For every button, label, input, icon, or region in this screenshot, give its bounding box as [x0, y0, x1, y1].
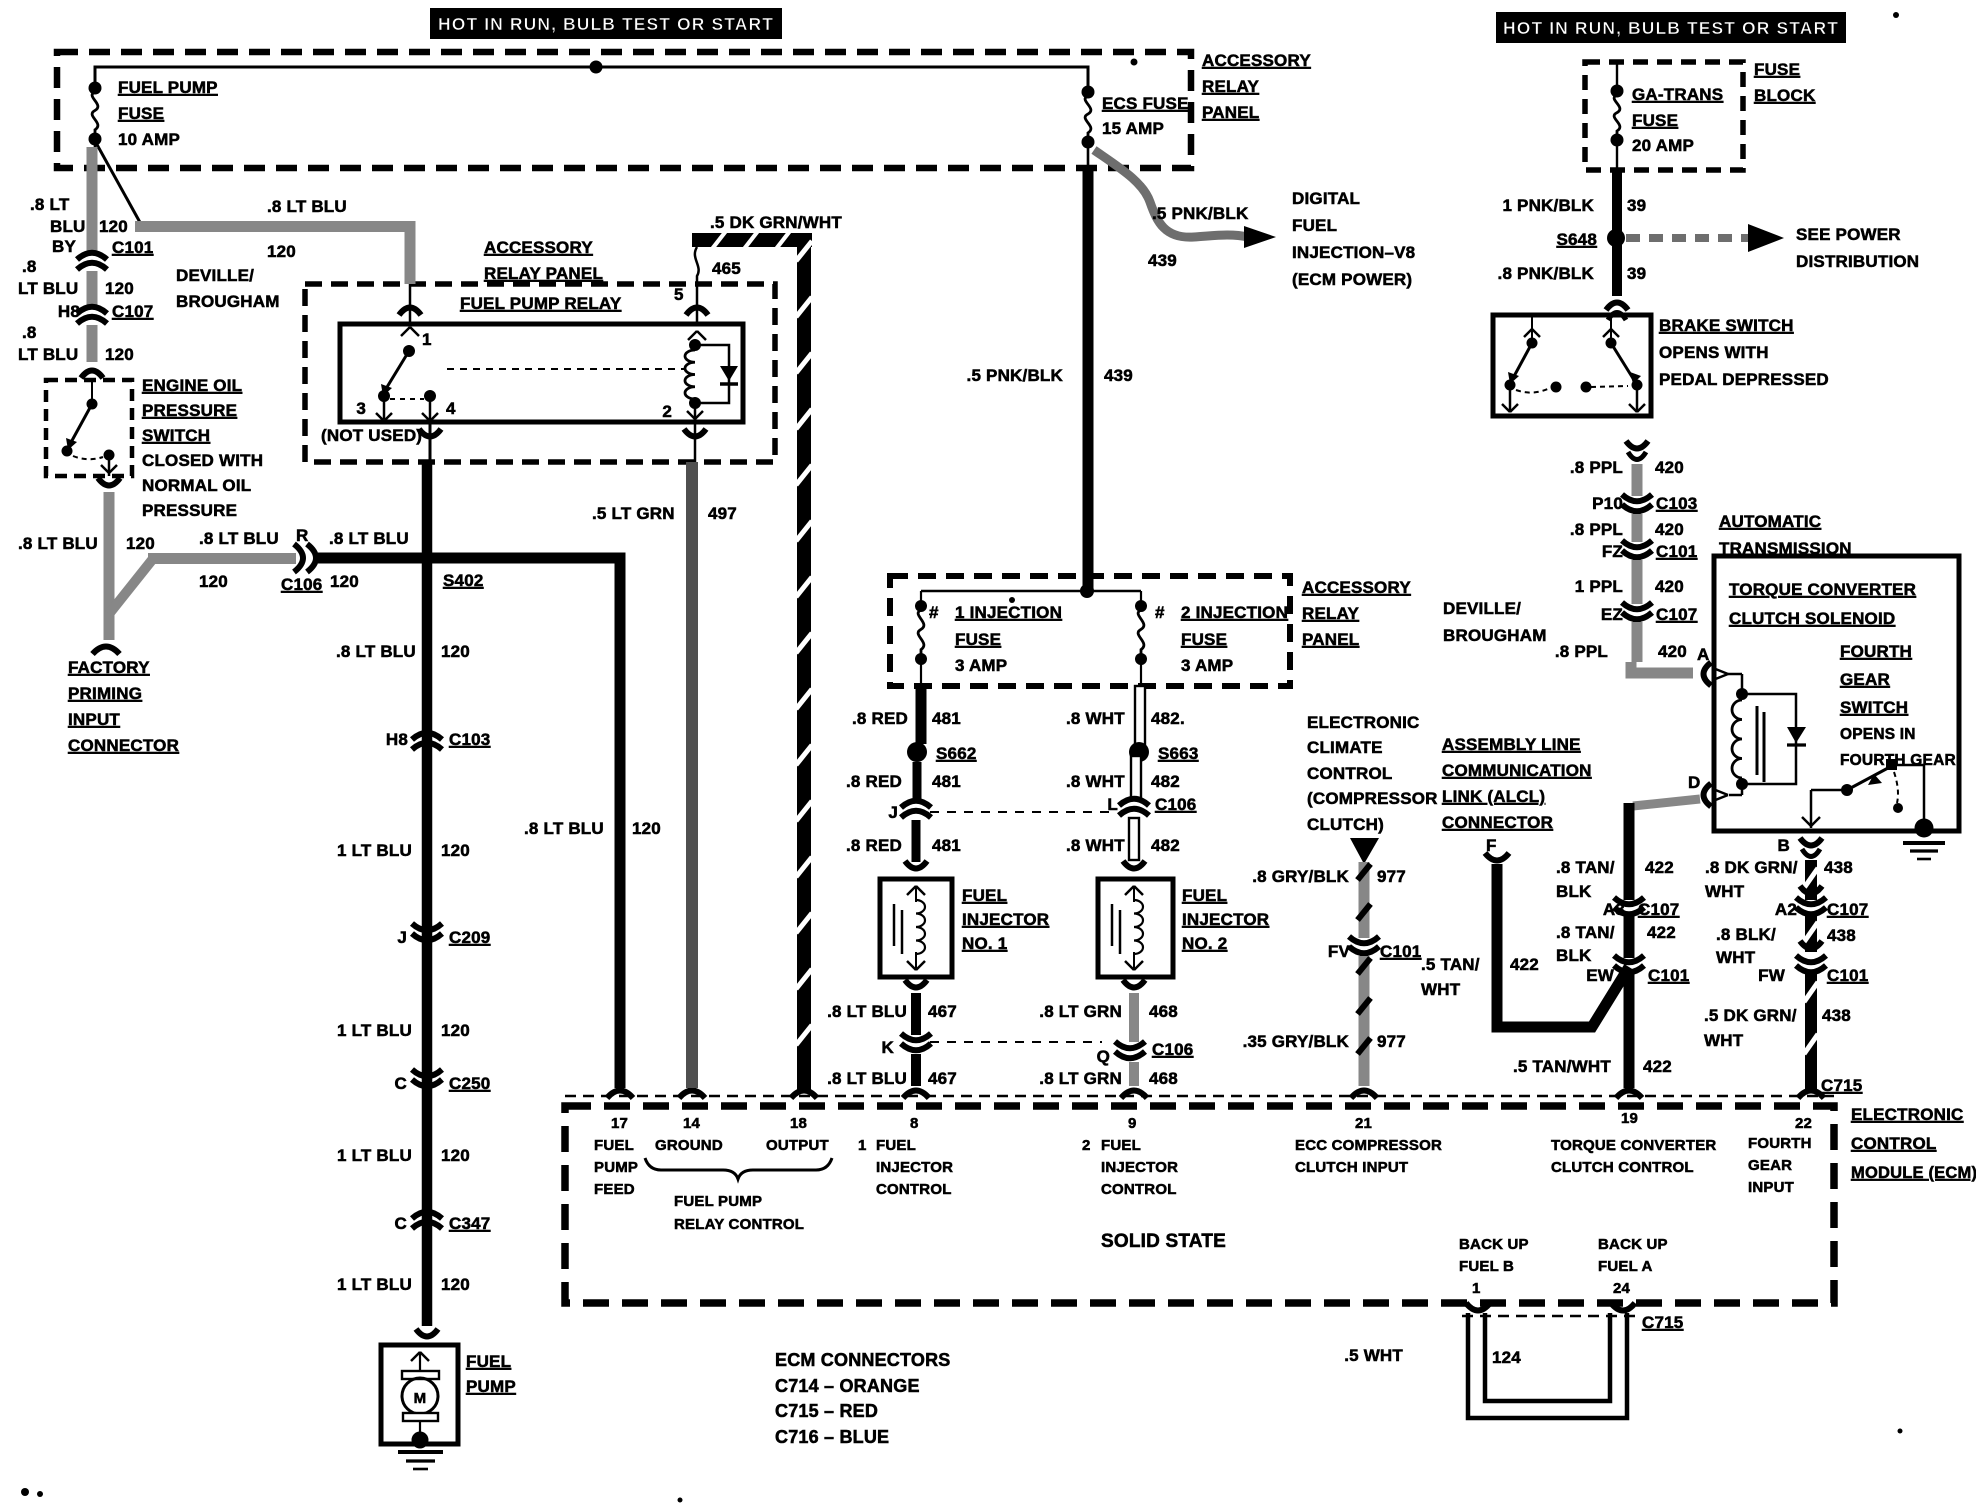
connector C107 A3 — [1614, 898, 1644, 905]
svg-text:CONNECTOR: CONNECTOR — [1442, 813, 1553, 832]
svg-text:MODULE (ECM): MODULE (ECM) — [1851, 1164, 1976, 1182]
svg-text:ECS FUSE: ECS FUSE — [1102, 94, 1189, 113]
relay coil diode branch — [695, 345, 729, 403]
svg-text:A2: A2 — [1775, 900, 1797, 919]
svg-text:INJECTOR: INJECTOR — [1182, 910, 1269, 929]
injector2 internals — [1125, 886, 1134, 895]
wire .8 PPL 420 C103-C101 — [1632, 514, 1643, 542]
svg-text:C: C — [395, 1214, 407, 1233]
ECS fuse (15 amp) — [1082, 86, 1095, 99]
injector1 internals — [907, 886, 916, 895]
svg-text:15 AMP: 15 AMP — [1102, 119, 1164, 138]
engine oil pressure switch dashed box — [46, 380, 132, 476]
svg-text:C103: C103 — [449, 730, 490, 749]
svg-text:GROUND: GROUND — [655, 1137, 723, 1154]
svg-text:.5 PNK/BLK: .5 PNK/BLK — [967, 366, 1064, 385]
relay dashed link 3-4 — [390, 398, 424, 400]
svg-text:120: 120 — [99, 217, 128, 236]
connector C107 (left) H8 — [77, 307, 107, 314]
relay pin 2 lead — [694, 403, 697, 422]
svg-text:C714 – ORANGE: C714 – ORANGE — [775, 1376, 920, 1396]
svg-text:FUEL: FUEL — [1182, 886, 1227, 905]
ground symbol fuel pump — [398, 1450, 443, 1454]
svg-text:S663: S663 — [1158, 744, 1199, 763]
svg-text:482.: 482. — [1151, 709, 1185, 728]
wire .8 RED 481 fuse1 to S662 — [916, 686, 927, 744]
bus to injection fuses — [921, 590, 1141, 593]
connector C106 Q — [1115, 1042, 1145, 1049]
svg-text:CONTROL: CONTROL — [1851, 1134, 1936, 1153]
svg-text:EW: EW — [1586, 966, 1615, 985]
svg-text:.8 LT GRN: .8 LT GRN — [1039, 1069, 1122, 1088]
svg-text:RELAY CONTROL: RELAY CONTROL — [674, 1216, 804, 1233]
relay pin 1 lead — [409, 284, 412, 324]
svg-text:1 LT BLU: 1 LT BLU — [337, 1021, 412, 1040]
accessory relay panel dashed box (injection fuses) — [890, 576, 1290, 686]
grey arrow to power distribution — [1626, 234, 1750, 242]
svg-text:RELAY: RELAY — [1302, 604, 1360, 623]
wire .8 LT BLU 120 C107-oil switch — [87, 325, 98, 362]
ground dot fourth gear switch — [1915, 819, 1934, 838]
svg-text:FUEL: FUEL — [466, 1352, 511, 1371]
svg-text:C106: C106 — [1152, 1040, 1193, 1059]
svg-text:TORQUE CONVERTER: TORQUE CONVERTER — [1551, 1137, 1716, 1154]
tcc solenoid diode branch — [1742, 694, 1796, 784]
svg-text:3: 3 — [356, 399, 366, 418]
connector C347 C — [412, 1212, 442, 1219]
svg-text:.8 WHT: .8 WHT — [1066, 836, 1125, 855]
svg-text:DIGITAL: DIGITAL — [1292, 189, 1360, 208]
connector C250 C — [412, 1070, 442, 1077]
svg-text:977: 977 — [1377, 1032, 1406, 1051]
fuel pump ground dot — [412, 1432, 429, 1449]
svg-text:CLUTCH): CLUTCH) — [1307, 815, 1384, 834]
svg-text:WHT: WHT — [1716, 948, 1756, 967]
wire .8 LT BLU 120 C101-C107 — [87, 271, 98, 307]
banner HOT IN RUN, BULB TEST OR START (right) — [1496, 12, 1846, 43]
wire .8 GRY/BLK 977 to FV — [1359, 862, 1370, 938]
svg-text:1: 1 — [1472, 1280, 1481, 1297]
wire .8 WHT 482 fuse2 to S663 (open) — [1135, 686, 1145, 748]
relay inner box — [340, 324, 743, 422]
svg-text:C106: C106 — [281, 575, 322, 594]
svg-text:420: 420 — [1655, 577, 1684, 596]
connector C106 L — [1119, 799, 1149, 806]
svg-text:FUSE: FUSE — [955, 630, 1001, 649]
svg-text:ACCESSORY: ACCESSORY — [484, 238, 593, 257]
svg-text:C: C — [395, 1074, 407, 1093]
svg-text:(ECM POWER): (ECM POWER) — [1292, 270, 1412, 289]
svg-text:A3: A3 — [1603, 900, 1625, 919]
svg-text:P10: P10 — [1592, 494, 1623, 513]
svg-text:438: 438 — [1824, 858, 1853, 877]
wire stub terminal D to A3 wire — [1633, 799, 1700, 806]
connector C103 P10 — [1622, 495, 1652, 502]
svg-text:OPENS WITH: OPENS WITH — [1659, 343, 1769, 362]
brace fuel pump relay control — [645, 1158, 832, 1179]
svg-text:FUEL: FUEL — [594, 1137, 634, 1154]
arrow into fuel pump — [416, 1329, 438, 1337]
svg-text:420: 420 — [1655, 458, 1684, 477]
svg-text:.8 LT BLU: .8 LT BLU — [199, 529, 279, 548]
svg-text:.8: .8 — [22, 323, 37, 342]
wire .8 TAN/BLK 422 A3 to EW — [1624, 914, 1635, 958]
svg-text:GA-TRANS: GA-TRANS — [1632, 85, 1723, 104]
svg-text:22: 22 — [1795, 1115, 1812, 1132]
svg-text:BACK UP: BACK UP — [1598, 1236, 1668, 1253]
connector C107 EZ — [1622, 603, 1652, 610]
svg-text:.8 TAN/: .8 TAN/ — [1556, 923, 1615, 942]
svg-text:SWITCH: SWITCH — [1840, 698, 1908, 717]
wire .5 TAN/WHT 422 from ALCL — [1497, 864, 1629, 1027]
#2 injection fuse 3 amp — [1140, 591, 1142, 601]
wire .8 LT BLU 467 injector1 to K — [911, 993, 921, 1035]
svg-text:.8: .8 — [22, 257, 37, 276]
svg-text:1 PNK/BLK: 1 PNK/BLK — [1502, 196, 1594, 215]
svg-text:FUSE: FUSE — [1754, 60, 1800, 79]
svg-text:J: J — [397, 928, 407, 947]
relay contact dot pin4 — [424, 390, 436, 402]
svg-text:ECC COMPRESSOR: ECC COMPRESSOR — [1295, 1137, 1442, 1154]
connector C107 A2 — [1800, 886, 1822, 894]
svg-text:.8 LT BLU: .8 LT BLU — [267, 197, 347, 216]
svg-text:.5 TAN/WHT: .5 TAN/WHT — [1513, 1057, 1611, 1076]
relay coil lead pin5 — [696, 284, 699, 324]
svg-text:.8 LT BLU: .8 LT BLU — [827, 1069, 907, 1088]
svg-text:21: 21 — [1355, 1115, 1372, 1132]
svg-text:.8 LT BLU: .8 LT BLU — [18, 534, 98, 553]
diode — [720, 366, 738, 381]
svg-text:C107: C107 — [1827, 900, 1868, 919]
svg-text:LT BLU: LT BLU — [18, 279, 78, 298]
svg-text:K: K — [882, 1038, 895, 1057]
svg-text:.8 LT BLU: .8 LT BLU — [329, 529, 409, 548]
svg-text:.5 DK GRN/: .5 DK GRN/ — [1704, 1006, 1797, 1025]
arrow into injector 1 — [905, 861, 927, 869]
svg-text:.8 BLK/: .8 BLK/ — [1716, 925, 1776, 944]
svg-text:14: 14 — [683, 1115, 701, 1132]
svg-text:.8 RED: .8 RED — [852, 709, 908, 728]
wire .8 TAN/BLK 422 terminal D to A3 — [1624, 803, 1635, 900]
fuel pump box — [381, 1345, 458, 1444]
wire 1 PPL 420 C101-C107 — [1632, 560, 1643, 604]
svg-text:PEDAL DEPRESSED: PEDAL DEPRESSED — [1659, 370, 1829, 389]
svg-text:C250: C250 — [449, 1074, 490, 1093]
svg-text:24: 24 — [1613, 1280, 1631, 1297]
svg-text:BLU: BLU — [50, 217, 86, 236]
svg-text:A: A — [1697, 645, 1709, 664]
arrowhead to digital fuel injection — [1244, 226, 1276, 248]
pin 1 arc — [1466, 1303, 1490, 1311]
svg-text:.8 RED: .8 RED — [846, 772, 902, 791]
svg-text:CONNECTOR: CONNECTOR — [68, 736, 179, 755]
junction dot on bus — [590, 61, 603, 74]
svg-text:BRAKE SWITCH: BRAKE SWITCH — [1659, 316, 1794, 335]
svg-text:2: 2 — [662, 402, 672, 421]
svg-text:18: 18 — [790, 1115, 807, 1132]
wire .35 GRY/BLK 977 FV to ECM pin21 — [1359, 956, 1370, 1086]
svg-text:120: 120 — [441, 1275, 470, 1294]
banner HOT IN RUN, BULB TEST OR START (left) — [430, 8, 782, 39]
svg-text:CLOSED WITH: CLOSED WITH — [142, 451, 263, 470]
wire .8 LT BLU 120 fuse down-left — [87, 147, 98, 253]
svg-text:.8 LT BLU: .8 LT BLU — [336, 642, 416, 661]
svg-text:439: 439 — [1104, 366, 1133, 385]
junction dot pnk/blk feed — [1080, 584, 1094, 598]
svg-text:.8 RED: .8 RED — [846, 836, 902, 855]
svg-text:BROUGHAM: BROUGHAM — [1443, 626, 1547, 645]
svg-text:J: J — [888, 803, 898, 822]
relay contact dot pin3 — [378, 390, 390, 402]
svg-text:120: 120 — [105, 279, 134, 298]
svg-text:3 AMP: 3 AMP — [955, 656, 1007, 675]
svg-text:C107: C107 — [1656, 605, 1697, 624]
svg-text:INJECTION–V8: INJECTION–V8 — [1292, 243, 1415, 262]
svg-text:20 AMP: 20 AMP — [1632, 136, 1694, 155]
wire .8 BLK/WHT 438 — [1805, 914, 1817, 952]
accessory relay panel dashed box (top) — [57, 52, 1191, 168]
wire .5 DK GRN/WHT 438 to ECM pin 22 — [1805, 974, 1817, 1090]
terminal D — [1741, 784, 1744, 795]
svg-text:120: 120 — [441, 841, 470, 860]
svg-text:DISTRIBUTION: DISTRIBUTION — [1796, 252, 1919, 271]
svg-text:S648: S648 — [1556, 230, 1597, 249]
automatic transmission box — [1714, 556, 1959, 831]
arrow out of injector 1 — [905, 980, 927, 988]
terminal cap at oil pressure switch — [81, 371, 103, 379]
connector C209 J — [412, 924, 442, 931]
svg-text:Q: Q — [1097, 1047, 1110, 1066]
svg-text:CLUTCH SOLENOID: CLUTCH SOLENOID — [1729, 609, 1895, 628]
terminal cap below oil switch — [98, 478, 120, 486]
svg-text:FUEL B: FUEL B — [1459, 1258, 1514, 1275]
svg-text:17: 17 — [611, 1115, 628, 1132]
svg-text:120: 120 — [441, 1146, 470, 1165]
svg-text:S402: S402 — [443, 571, 484, 590]
wire stub to relay pin 5 — [695, 247, 699, 284]
svg-text:2: 2 — [1082, 1137, 1091, 1154]
relay pin4 lead — [429, 400, 432, 422]
svg-text:SWITCH: SWITCH — [142, 426, 210, 445]
splice S663 — [1129, 742, 1149, 762]
wire .5 PNK/BLK 439 branch to DFI (grey squiggle) — [1094, 150, 1248, 237]
wire .8 RED 481 J to injector1 — [912, 820, 921, 862]
svg-text:R: R — [296, 526, 308, 545]
fuel pump relay dashed box — [305, 284, 775, 462]
wire .5 DK GRN/WHT 465/output striped vertical — [692, 233, 812, 247]
svg-text:NORMAL OIL: NORMAL OIL — [142, 476, 251, 495]
svg-text:120: 120 — [441, 1021, 470, 1040]
svg-text:PUMP: PUMP — [466, 1377, 516, 1396]
svg-text:481: 481 — [932, 772, 961, 791]
wire .8 LT BLU 120 horizontal to C106 — [148, 553, 296, 564]
svg-text:DEVILLE/: DEVILLE/ — [1443, 599, 1521, 618]
svg-text:467: 467 — [928, 1002, 957, 1021]
svg-text:465: 465 — [712, 259, 741, 278]
svg-text:.8 LT BLU: .8 LT BLU — [524, 819, 604, 838]
svg-text:1 LT BLU: 1 LT BLU — [337, 1146, 412, 1165]
svg-text:RELAY: RELAY — [1202, 77, 1260, 96]
svg-text:120: 120 — [199, 572, 228, 591]
svg-text:ELECTRONIC: ELECTRONIC — [1851, 1105, 1964, 1124]
svg-text:#: # — [1155, 603, 1165, 622]
svg-text:481: 481 — [932, 836, 961, 855]
svg-text:BLOCK: BLOCK — [1754, 86, 1816, 105]
svg-text:CONTROL: CONTROL — [1101, 1181, 1177, 1198]
svg-text:L: L — [1107, 795, 1118, 814]
svg-text:(COMPRESSOR: (COMPRESSOR — [1307, 789, 1438, 808]
svg-text:AUTOMATIC: AUTOMATIC — [1719, 512, 1821, 531]
relay pin3 stub (not used) — [383, 400, 386, 419]
svg-text:D: D — [1688, 773, 1700, 792]
svg-text:.8 PPL: .8 PPL — [1555, 642, 1608, 661]
svg-text:.5 PNK/BLK: .5 PNK/BLK — [1152, 204, 1249, 223]
svg-text:120: 120 — [441, 642, 470, 661]
ECM pin entry arcs — [607, 1091, 633, 1099]
svg-text:3 AMP: 3 AMP — [1181, 656, 1233, 675]
svg-text:482: 482 — [1151, 772, 1180, 791]
wire .8 LT BLU 120 to factory priming connector — [104, 492, 115, 640]
svg-text:PRESSURE: PRESSURE — [142, 401, 237, 420]
svg-text:.5 LT GRN: .5 LT GRN — [592, 504, 675, 523]
arrow into injector 2 — [1123, 861, 1145, 869]
svg-text:RELAY PANEL: RELAY PANEL — [484, 264, 603, 283]
wire .8 LT GRN 468 Q to ECM pin9 (grey) — [1129, 1062, 1139, 1086]
svg-text:2 INJECTION: 2 INJECTION — [1181, 603, 1288, 622]
svg-text:438: 438 — [1827, 926, 1856, 945]
svg-text:.5 TAN/: .5 TAN/ — [1421, 955, 1480, 974]
wire relay pin4/S402 vertical run to fuel pump — [422, 462, 433, 1326]
svg-text:FUEL: FUEL — [1292, 216, 1337, 235]
svg-text:M: M — [414, 1390, 427, 1407]
svg-text:10 AMP: 10 AMP — [118, 130, 180, 149]
svg-text:C101: C101 — [1827, 966, 1868, 985]
svg-text:ENGINE OIL: ENGINE OIL — [142, 376, 242, 395]
svg-text:1 LT BLU: 1 LT BLU — [337, 841, 412, 860]
svg-text:.5 DK GRN/WHT: .5 DK GRN/WHT — [710, 213, 842, 232]
wire .8 WHT 482 L to injector2 (open) — [1129, 818, 1139, 860]
connector C106 J — [901, 801, 931, 808]
svg-text:BACK UP: BACK UP — [1459, 1236, 1529, 1253]
svg-text:PRESSURE: PRESSURE — [142, 501, 237, 520]
wire .5 TAN/WHT 422 EW to ECM pin 19 — [1624, 972, 1635, 1088]
svg-text:.8 PPL: .8 PPL — [1570, 458, 1623, 477]
svg-text:.8 PNK/BLK: .8 PNK/BLK — [1498, 264, 1595, 283]
svg-text:BY: BY — [52, 237, 76, 256]
svg-text:FACTORY: FACTORY — [68, 658, 150, 677]
svg-text:SOLID STATE: SOLID STATE — [1101, 1231, 1226, 1252]
svg-text:CLIMATE: CLIMATE — [1307, 738, 1383, 757]
svg-text:GEAR: GEAR — [1840, 670, 1890, 689]
svg-text:482: 482 — [1151, 836, 1180, 855]
brake switch internals left — [1531, 315, 1533, 340]
svg-text:.8 DK GRN/: .8 DK GRN/ — [1705, 858, 1798, 877]
svg-text:ACCESSORY: ACCESSORY — [1202, 51, 1311, 70]
backup fuel jumper .5 WHT 124 (open wire loop) — [1468, 1313, 1627, 1418]
ground symbol transmission — [1903, 841, 1945, 845]
svg-text:NO. 2: NO. 2 — [1182, 934, 1227, 953]
svg-text:H8: H8 — [58, 302, 80, 321]
svg-text:BLK: BLK — [1556, 946, 1592, 965]
wire .8 LT BLU 467 K to ECM pin8 — [911, 1054, 921, 1086]
svg-text:ECM CONNECTORS: ECM CONNECTORS — [775, 1350, 950, 1370]
terminal B exit — [1810, 790, 1813, 828]
svg-text:120: 120 — [632, 819, 661, 838]
svg-text:.8 WHT: .8 WHT — [1066, 772, 1125, 791]
connector C103 H8 — [412, 733, 442, 740]
svg-text:C101: C101 — [1380, 942, 1421, 961]
wire .8 PPL 420 C107 to terminal A — [1632, 622, 1643, 662]
splice S662 — [907, 742, 927, 762]
wire .5 PNK/BLK 439 vertical — [1083, 168, 1094, 591]
terminal cap factory priming — [93, 647, 120, 655]
splice S648 — [1607, 229, 1625, 247]
svg-text:SEE POWER: SEE POWER — [1796, 225, 1901, 244]
svg-text:19: 19 — [1621, 1110, 1638, 1127]
svg-text:.35 GRY/BLK: .35 GRY/BLK — [1243, 1032, 1350, 1051]
svg-text:422: 422 — [1643, 1057, 1672, 1076]
wire .8 LT GRN 468 injector2 to Q (grey) — [1129, 993, 1139, 1042]
svg-text:420: 420 — [1658, 642, 1687, 661]
svg-text:CLUTCH CONTROL: CLUTCH CONTROL — [1551, 1159, 1694, 1176]
svg-text:.8 LT GRN: .8 LT GRN — [1039, 1002, 1122, 1021]
svg-text:C715 – RED: C715 – RED — [775, 1401, 878, 1421]
svg-text:438: 438 — [1822, 1006, 1851, 1025]
svg-text:COMMUNICATION: COMMUNICATION — [1442, 761, 1592, 780]
svg-text:GEAR: GEAR — [1748, 1157, 1792, 1174]
svg-text:CLUTCH INPUT: CLUTCH INPUT — [1295, 1159, 1408, 1176]
svg-text:WHT: WHT — [1421, 980, 1461, 999]
dashed link J-L — [930, 811, 1110, 813]
connector C101 FZ — [1622, 541, 1652, 548]
svg-text:S662: S662 — [936, 744, 977, 763]
svg-text:977: 977 — [1377, 867, 1406, 886]
svg-text:FV: FV — [1328, 942, 1351, 961]
svg-text:PANEL: PANEL — [1302, 630, 1359, 649]
svg-text:FUEL PUMP: FUEL PUMP — [118, 78, 218, 97]
svg-text:CONTROL: CONTROL — [876, 1181, 952, 1198]
svg-text:.8 GRY/BLK: .8 GRY/BLK — [1252, 867, 1349, 886]
svg-text:1: 1 — [858, 1137, 867, 1154]
svg-text:EZ: EZ — [1601, 605, 1623, 624]
svg-text:INPUT: INPUT — [68, 710, 120, 729]
svg-text:FUEL PUMP: FUEL PUMP — [674, 1193, 762, 1210]
connector into brake switch — [1606, 303, 1628, 311]
wire .8 LT BLU 120 vertical to ECM pin 17 — [615, 553, 626, 1089]
wire .8 WHT 482 S663 to L (open) — [1131, 756, 1141, 799]
svg-text:FUEL PUMP RELAY: FUEL PUMP RELAY — [460, 294, 622, 313]
svg-text:422: 422 — [1645, 858, 1674, 877]
svg-text:FOURTH GEAR: FOURTH GEAR — [1840, 752, 1956, 769]
connector C106 (right-pointing) — [294, 544, 303, 572]
svg-text:481: 481 — [932, 709, 961, 728]
svg-text:ELECTRONIC: ELECTRONIC — [1307, 713, 1420, 732]
ga-trans fuse (20 amp) — [1616, 62, 1618, 86]
wire 1 PNK/BLK 39 — [1612, 170, 1622, 296]
svg-text:4: 4 — [446, 399, 456, 418]
fuel injector no.2 box — [1098, 879, 1173, 977]
svg-text:FUSE: FUSE — [118, 104, 164, 123]
connector C101 (left) — [77, 253, 107, 260]
svg-text:INJECTOR: INJECTOR — [962, 910, 1049, 929]
svg-text:420: 420 — [1655, 520, 1684, 539]
svg-text:C107: C107 — [1638, 900, 1679, 919]
tcc solenoid coil — [1736, 688, 1748, 700]
svg-text:120: 120 — [105, 345, 134, 364]
svg-text:TORQUE CONVERTER: TORQUE CONVERTER — [1729, 580, 1916, 599]
svg-text:FZ: FZ — [1602, 542, 1623, 561]
svg-text:120: 120 — [330, 572, 359, 591]
